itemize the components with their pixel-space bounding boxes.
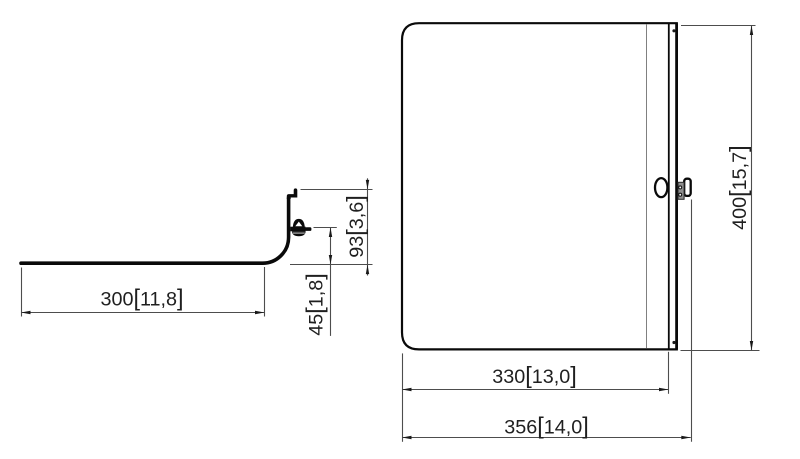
front view: clip screw top xyxy=(679,186,682,189)
arrow right xyxy=(659,388,669,391)
front view: top rivet xyxy=(672,29,675,32)
extension line left xyxy=(21,268,23,317)
dimension 400[15,7] (front view height) xyxy=(681,26,760,351)
front view: shelf plate outline xyxy=(402,23,677,349)
extension line right (lip inner) xyxy=(668,352,670,394)
side view: thumbscrew knob xyxy=(290,219,311,236)
extension line at screw axis xyxy=(314,227,337,229)
front view: bend tangent line xyxy=(646,24,648,348)
arrow right xyxy=(255,311,265,314)
extension line top (hook tip) xyxy=(301,189,373,191)
extension line right (clip outer) xyxy=(691,200,693,442)
arrow down (outside, above) xyxy=(366,180,369,190)
arrow up (outside, below) xyxy=(366,265,369,275)
arrow down xyxy=(750,341,753,351)
dimension 45[1,8] (screw height above plate) xyxy=(301,228,337,336)
svg-text:400[15,7]: 400[15,7] xyxy=(725,145,751,230)
dimension 330[13,0] (flat width front view) xyxy=(402,352,669,442)
extension line right (bend tangent) xyxy=(264,267,266,317)
side view: shelf plate profile (bent sheet) xyxy=(21,188,297,263)
arrow up xyxy=(750,26,753,36)
svg-text:45[1,8]: 45[1,8] xyxy=(301,273,327,336)
arrow down xyxy=(329,255,332,265)
dimension line xyxy=(367,178,369,275)
arrow right xyxy=(681,436,691,439)
svg-text:93[3,6]: 93[3,6] xyxy=(342,195,368,258)
dimension 300[11,8] (side view width) xyxy=(21,267,265,317)
dimension line xyxy=(403,437,691,439)
front view: oval cutout xyxy=(655,178,667,197)
front view: right edge (lip outer) xyxy=(675,23,678,349)
svg-text:330[13,0]: 330[13,0] xyxy=(492,362,577,388)
dimension 93[3,6] (hook height above plate) xyxy=(290,178,373,275)
arrow left xyxy=(402,388,412,391)
front view: clip body xyxy=(678,182,684,199)
extension line left (shared with 356) xyxy=(402,353,404,441)
dimension line xyxy=(330,228,332,336)
arrow left xyxy=(402,436,412,439)
arrow up xyxy=(329,228,332,238)
front view: bottom rivet xyxy=(672,341,675,344)
front view: lip inner edge line xyxy=(668,23,670,349)
dimension 356[14,0] (overall depth front view) xyxy=(402,200,692,442)
front view: clip screw bottom xyxy=(679,193,682,196)
front view: clip loop xyxy=(684,179,691,196)
dimension line xyxy=(751,26,753,351)
dimension line xyxy=(403,389,669,391)
svg-text:356[14,0]: 356[14,0] xyxy=(504,413,589,439)
extension line top xyxy=(681,25,756,27)
svg-text:300[11,8]: 300[11,8] xyxy=(100,285,183,311)
dimension line xyxy=(22,312,265,314)
extension line bottom (plate underside) xyxy=(290,264,373,266)
side view: hook step at top xyxy=(287,188,298,199)
arrow left xyxy=(21,311,31,314)
extension line bottom xyxy=(681,350,760,352)
